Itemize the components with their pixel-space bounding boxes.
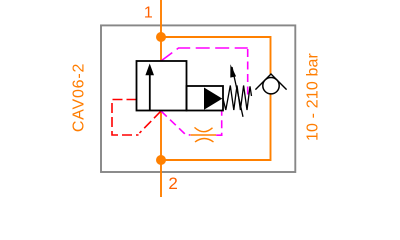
svg-text:1: 1 bbox=[144, 5, 153, 22]
svg-text:2: 2 bbox=[168, 174, 177, 193]
svg-text:10 - 210 bar: 10 - 210 bar bbox=[305, 52, 322, 141]
svg-text:CAV06-2: CAV06-2 bbox=[71, 63, 88, 132]
